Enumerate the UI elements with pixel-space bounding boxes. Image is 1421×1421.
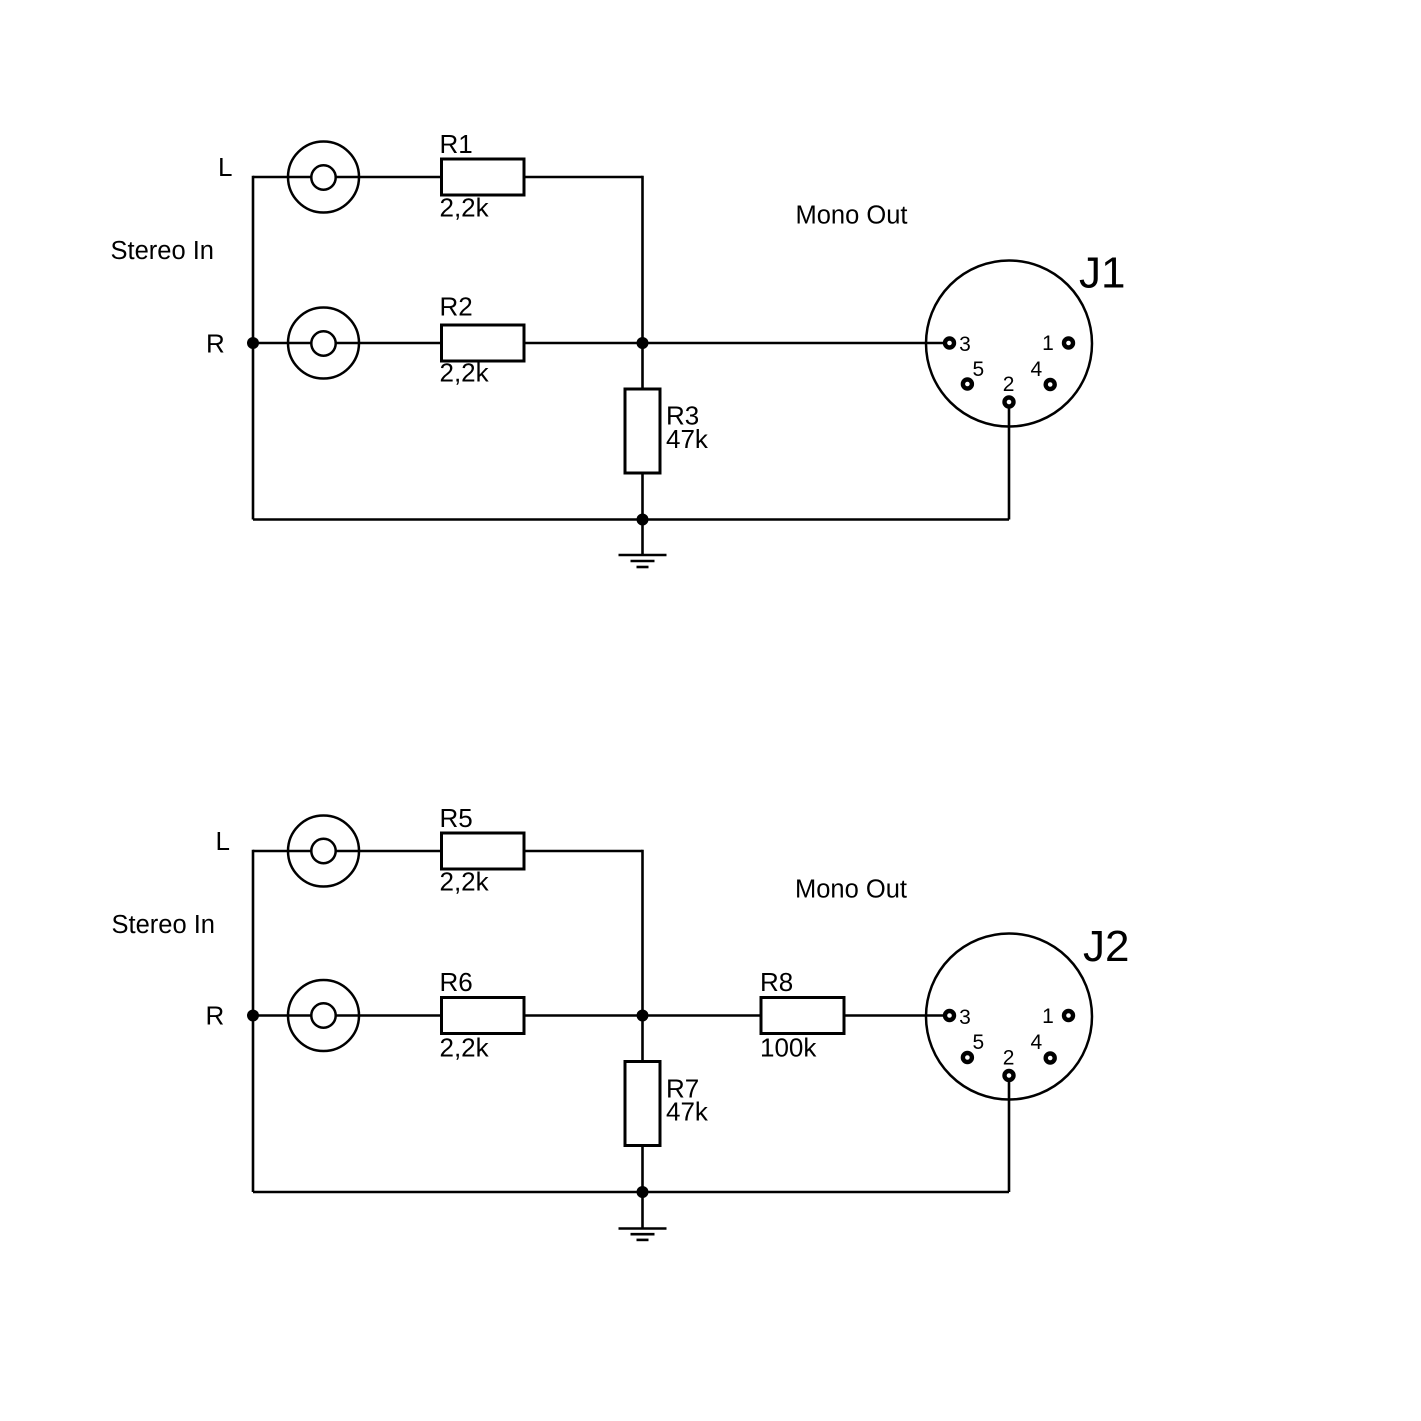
J2 pin 2 bbox=[1005, 1071, 1014, 1080]
J1 pin 4 bbox=[1046, 380, 1055, 389]
node dot center R junction top bbox=[637, 337, 649, 349]
svg-text:J2: J2 bbox=[1083, 922, 1129, 971]
RCA jack L input top bbox=[288, 142, 359, 213]
svg-text:J1: J1 bbox=[1079, 249, 1125, 298]
svg-text:R8: R8 bbox=[760, 967, 793, 997]
ground symbol top bbox=[619, 520, 667, 568]
J2 pin 5 bbox=[963, 1053, 972, 1062]
svg-text:R1: R1 bbox=[440, 129, 473, 159]
svg-text:4: 4 bbox=[1031, 1031, 1043, 1054]
wire left vertical bus bottom bbox=[252, 850, 255, 1192]
svg-text:3: 3 bbox=[959, 333, 971, 356]
wire DIN pin 2 drop top bbox=[1008, 402, 1011, 520]
wire R7 branch vertical bottom bbox=[641, 1016, 644, 1193]
svg-text:R: R bbox=[206, 1001, 225, 1031]
svg-text:L: L bbox=[218, 152, 232, 182]
node dot center R junction bottom bbox=[637, 1010, 649, 1022]
svg-text:47k: 47k bbox=[666, 1097, 709, 1127]
svg-text:Stereo In: Stereo In bbox=[111, 237, 214, 265]
wire ground bottom bus top bbox=[253, 518, 1009, 521]
wire DIN pin 2 drop bottom bbox=[1008, 1075, 1011, 1192]
ground symbol bottom bbox=[619, 1192, 667, 1240]
RCA jack L input bottom bbox=[288, 816, 359, 887]
svg-text:1: 1 bbox=[1042, 1005, 1054, 1028]
resistor R3 bbox=[625, 389, 660, 473]
svg-text:2: 2 bbox=[1003, 373, 1015, 396]
J1 pin 3 bbox=[945, 339, 954, 348]
svg-text:5: 5 bbox=[973, 1031, 985, 1054]
svg-text:47k: 47k bbox=[666, 424, 709, 454]
svg-text:Stereo In: Stereo In bbox=[112, 911, 215, 939]
svg-text:1: 1 bbox=[1042, 332, 1054, 355]
J2 pin 4 bbox=[1046, 1054, 1055, 1063]
wire right vertical L-to-R top bbox=[641, 176, 644, 343]
DIN connector J2 bbox=[926, 934, 1092, 1100]
svg-text:2,2k: 2,2k bbox=[440, 193, 490, 223]
wire L-row top: left node to right vertical bbox=[253, 176, 643, 179]
DIN connector J1 bbox=[926, 261, 1092, 427]
svg-text:100k: 100k bbox=[760, 1033, 817, 1063]
svg-text:2: 2 bbox=[1003, 1047, 1015, 1070]
resistor R8 bbox=[761, 998, 844, 1034]
node dot ground junction bottom bbox=[637, 1186, 649, 1198]
svg-text:L: L bbox=[216, 826, 230, 856]
svg-text:2,2k: 2,2k bbox=[440, 867, 490, 897]
svg-text:R: R bbox=[206, 329, 225, 359]
resistor R2 bbox=[442, 325, 525, 361]
RCA jack R input bottom bbox=[288, 980, 359, 1051]
svg-text:5: 5 bbox=[973, 358, 985, 381]
resistor R7 bbox=[625, 1062, 660, 1146]
node dot ground junction top bbox=[637, 514, 649, 526]
J2 pin 3 bbox=[945, 1011, 954, 1020]
svg-text:Mono Out: Mono Out bbox=[795, 876, 907, 904]
wire R3 branch vertical top bbox=[641, 343, 644, 520]
wire ground bottom bus bottom bbox=[253, 1191, 1009, 1194]
svg-text:2,2k: 2,2k bbox=[440, 358, 490, 388]
resistor R5 bbox=[442, 833, 525, 869]
wire R-row top: left bus to DIN pin 3 bbox=[253, 342, 950, 345]
resistor R6 bbox=[442, 998, 525, 1034]
svg-text:R2: R2 bbox=[440, 292, 473, 322]
J1 pin 5 bbox=[963, 380, 972, 389]
node dot left R junction top bbox=[247, 337, 259, 349]
J1 pin 2 bbox=[1005, 398, 1014, 407]
svg-text:R5: R5 bbox=[440, 803, 473, 833]
node dot left R junction bottom bbox=[247, 1010, 259, 1022]
RCA jack R input top bbox=[288, 308, 359, 379]
J2 pin 1 bbox=[1064, 1011, 1073, 1020]
wire R-row bottom: left bus to DIN pin 3 bbox=[253, 1014, 950, 1017]
svg-text:4: 4 bbox=[1031, 358, 1043, 381]
svg-text:2,2k: 2,2k bbox=[440, 1033, 490, 1063]
wire L-row bottom: left node to right vertical bbox=[253, 850, 643, 853]
wire left vertical bus top bbox=[252, 176, 255, 520]
svg-text:3: 3 bbox=[959, 1006, 971, 1029]
svg-text:Mono Out: Mono Out bbox=[796, 202, 908, 230]
svg-text:R6: R6 bbox=[440, 967, 473, 997]
J1 pin 1 bbox=[1064, 339, 1073, 348]
resistor R1 bbox=[442, 159, 525, 195]
wire right vertical L-to-R bottom bbox=[641, 850, 644, 1016]
